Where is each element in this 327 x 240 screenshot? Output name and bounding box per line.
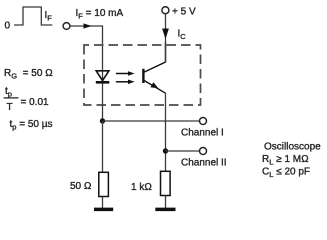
svg-text:1 kΩ: 1 kΩ bbox=[131, 182, 152, 193]
+5V terminal bbox=[162, 7, 196, 18]
wire to Channel II bbox=[166, 150, 200, 152]
svg-text:= 0.01: = 0.01 bbox=[21, 97, 50, 108]
oscilloscope note bbox=[262, 142, 321, 180]
svg-text:tp: tp bbox=[5, 86, 12, 99]
wire emitter down to 1k resistor bbox=[165, 93, 167, 172]
svg-text:Channel I: Channel I bbox=[181, 128, 224, 139]
ground right bbox=[155, 208, 175, 212]
light emission arrows bbox=[116, 71, 135, 84]
wire LED cathode down to junction bbox=[102, 71, 104, 121]
node junction at LED cathode / Channel I bbox=[100, 118, 105, 123]
svg-text:IF = 10 mA: IF = 10 mA bbox=[76, 8, 124, 21]
wire input to LED anode bbox=[70, 23, 102, 70]
Channel II terminal bbox=[181, 148, 227, 169]
wire 1 kohm to ground bbox=[165, 196, 167, 209]
svg-text:CL ≤ 20 pF: CL ≤ 20 pF bbox=[262, 167, 310, 180]
svg-text:IC: IC bbox=[178, 29, 187, 42]
svg-text:50 Ω: 50 Ω bbox=[70, 181, 92, 192]
svg-text:Oscilloscope: Oscilloscope bbox=[264, 142, 321, 153]
svg-text:Channel II: Channel II bbox=[181, 158, 227, 169]
svg-text:RL ≥ 1 MΩ: RL ≥ 1 MΩ bbox=[262, 154, 309, 167]
pulse waveform symbol bbox=[5, 7, 53, 32]
phototransistor Q1 bbox=[142, 42, 165, 93]
svg-text:T: T bbox=[7, 102, 13, 113]
wire to Channel I bbox=[103, 120, 200, 122]
svg-text:tp = 50 µs: tp = 50 µs bbox=[10, 119, 53, 132]
optocoupler dashed box bbox=[84, 45, 201, 105]
svg-text:IF: IF bbox=[45, 10, 53, 23]
label tp/T = 0.01 bbox=[4, 86, 49, 113]
resistor 50 ohm bbox=[70, 172, 108, 196]
LED D1 bbox=[96, 71, 110, 83]
wire 50 ohm to ground bbox=[102, 197, 104, 209]
node junction at emitter / Channel II bbox=[163, 148, 168, 153]
svg-text:RG = 50 Ω: RG = 50 Ω bbox=[4, 68, 53, 81]
wire +5V to collector with IC arrow bbox=[162, 14, 169, 63]
resistor 1 kohm bbox=[131, 171, 170, 195]
Channel I terminal bbox=[181, 118, 224, 139]
svg-text:0: 0 bbox=[5, 21, 11, 32]
input terminal circle bbox=[63, 23, 70, 30]
wire LED junction down to 50 ohm resistor bbox=[102, 121, 104, 173]
ground left bbox=[94, 208, 113, 212]
svg-text:+ 5 V: + 5 V bbox=[172, 7, 196, 18]
